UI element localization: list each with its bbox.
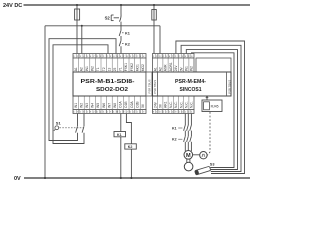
- svg-text:RJ45: RJ45: [211, 105, 219, 109]
- svg-text:N.C.: N.C.: [185, 101, 189, 108]
- svg-text:PSR-M-EM4-: PSR-M-EM4-: [175, 79, 206, 85]
- svg-text:IN1: IN1: [185, 66, 189, 71]
- svg-text:M: M: [186, 153, 191, 159]
- svg-text:O1B: O1B: [124, 101, 128, 108]
- wire: S1 linkage (dashed): [59, 127, 83, 129]
- svg-text:ASR: ASR: [164, 64, 168, 71]
- contactor contacts K1 (3-phase): [184, 125, 193, 131]
- module U1 terminal cell dividers bottom: [79, 96, 141, 114]
- RJ45 jack X1: [202, 100, 222, 112]
- wire: 0V bus left leg down to 0V rail: [44, 26, 46, 178]
- wire: T1 loop (line3) to S1 channel 1: [49, 39, 116, 141]
- wire: motor phase L3: [190, 114, 192, 152]
- contact S1 channel 2: [82, 126, 84, 132]
- svg-text:A1: A1: [74, 67, 78, 71]
- svg-text:S2: S2: [105, 16, 111, 21]
- contact S1 channel 1: [76, 126, 78, 132]
- svg-text:MO2: MO2: [141, 64, 145, 71]
- encoder loop wire 2: [181, 45, 241, 171]
- wire: K1 to K2 contact: [120, 36, 122, 41]
- wire: fuse F2 drop from 24V rail: [153, 5, 155, 10]
- module U1: PSR-M-B1-SDI8-SDO2-DO2: [73, 54, 146, 114]
- svg-text:A2: A2: [79, 67, 83, 71]
- emergency stop S1: [55, 126, 59, 130]
- connector stub: module U2 to RJ45: [206, 96, 208, 100]
- svg-text:O1A: O1A: [119, 101, 123, 108]
- fuse F2: [152, 10, 157, 21]
- contact K2 (aux, in reset chain): [119, 41, 121, 47]
- svg-text:K2: K2: [172, 138, 177, 142]
- wire: K2 contact to module1 reset terminal: [120, 46, 122, 53]
- svg-text:K1: K1: [117, 133, 122, 137]
- module U2: PSR-M-EM4-SINCOS1: [153, 54, 195, 114]
- svg-text:IN2: IN2: [79, 103, 83, 108]
- svg-text:N.C.: N.C.: [174, 101, 178, 108]
- svg-text:IN4: IN4: [91, 103, 95, 108]
- wire: S2 drop from 24V rail: [120, 5, 122, 14]
- svg-text:A1: A1: [153, 67, 157, 71]
- module U2 top terminal labels: [153, 62, 193, 71]
- svg-text:IN1: IN1: [85, 66, 89, 71]
- svg-text:24V DC: 24V DC: [3, 3, 22, 9]
- module U1 terminal cell dividers top: [79, 54, 141, 73]
- module U2 bottom terminal labels: [153, 101, 193, 108]
- wire: F2 to module2 A1 terminal: [153, 20, 155, 54]
- wire: motor phase L2: [187, 114, 189, 151]
- svg-text:IN3: IN3: [85, 103, 89, 108]
- svg-text:IN7: IN7: [107, 103, 111, 108]
- 24V rail: [24, 4, 251, 6]
- svg-text:MO1: MO1: [135, 64, 139, 71]
- encoder loop wire 4 (innermost): [192, 53, 235, 168]
- svg-text:IN1: IN1: [74, 103, 78, 108]
- svg-text:PSR TBUS: PSR TBUS: [153, 80, 157, 94]
- svg-text:S1: S1: [56, 120, 62, 125]
- module U1 top terminal labels: [74, 63, 145, 71]
- svg-text:24V: 24V: [174, 65, 178, 72]
- svg-text:FSK2: FSK2: [130, 63, 134, 71]
- module U2 TBUS strip left: [157, 72, 159, 96]
- proximity sensor S3: [195, 166, 211, 175]
- node: junction 24V/F1: [76, 4, 78, 6]
- wire: F1 to module1 A1 terminal: [76, 20, 78, 54]
- wheel / axis: [184, 162, 193, 171]
- svg-text:Y1: Y1: [119, 67, 123, 71]
- node: junction K2/0V: [130, 177, 132, 179]
- node: junction 24V/F2: [153, 4, 155, 6]
- svg-text:S3: S3: [210, 163, 215, 167]
- node: junction K1/0V: [120, 177, 122, 179]
- svg-text:SINCOS1: SINCOS1: [180, 87, 202, 93]
- module U2 bottom terminal numbers: [156, 110, 191, 114]
- svg-text:T2: T2: [102, 67, 106, 71]
- svg-text:24V: 24V: [153, 101, 157, 108]
- module U1 top terminal numbers: [76, 54, 142, 59]
- relay coil K2: [125, 144, 137, 149]
- encoder loop wire 3: [186, 50, 237, 170]
- module U2 upper-right section: [196, 58, 231, 72]
- svg-text:N.C.: N.C.: [179, 101, 183, 108]
- svg-text:AR1: AR1: [164, 101, 168, 108]
- module U1 body: [73, 72, 146, 96]
- svg-text:IN2: IN2: [91, 66, 95, 71]
- contactor contacts K2 (3-phase): [184, 136, 193, 142]
- module U2 top terminal numbers: [156, 54, 191, 59]
- wire: 0V bus drop to module1 A2: [81, 26, 83, 54]
- svg-text:IN6: IN6: [102, 103, 106, 108]
- wire: K1 coil to 0V rail: [120, 137, 122, 178]
- encoder G1 (sin/cos): [200, 152, 207, 159]
- module U2 body: [153, 72, 232, 96]
- svg-text:SDO2-DO2: SDO2-DO2: [96, 87, 128, 93]
- svg-text:FSK1: FSK1: [124, 63, 128, 71]
- svg-text:K2: K2: [128, 145, 133, 149]
- 0V rail: [24, 177, 250, 179]
- wire: T2 loop (line4) to S1 channel 2: [53, 45, 108, 144]
- svg-text:N.C.: N.C.: [190, 101, 194, 108]
- wire: 0V bus right drop to module2 A2: [159, 26, 161, 54]
- wire: module1 IN1 down to S1 contact 1: [77, 114, 79, 127]
- svg-text:IN8: IN8: [113, 103, 117, 108]
- relay coil K1: [114, 132, 126, 137]
- svg-text:O2A: O2A: [130, 101, 134, 108]
- svg-text:O2B: O2B: [135, 101, 139, 108]
- svg-text:K1: K1: [125, 31, 130, 35]
- wire: fuse F1 drop from 24V rail: [76, 5, 78, 9]
- svg-text:PSR-M-B1-SDI8-: PSR-M-B1-SDI8-: [81, 79, 135, 85]
- svg-text:K1: K1: [172, 126, 177, 130]
- wire: module1 O1A to K1 coil: [120, 114, 122, 132]
- wire: module1 O1B to K2 coil: [126, 114, 131, 144]
- encoder loop wire 1 (outermost): [176, 41, 245, 174]
- svg-text:K2: K2: [125, 43, 130, 47]
- wire: motor phase L1: [184, 114, 186, 152]
- svg-text:N.C.: N.C.: [169, 101, 173, 108]
- node: junction 24V/S2: [120, 4, 122, 6]
- fuse F1: [75, 9, 80, 20]
- svg-text:AOR1: AOR1: [169, 62, 173, 71]
- module U2 terminal cell dividers: [158, 54, 189, 114]
- wire: K2 coil to 0V rail: [130, 149, 132, 178]
- svg-text:PSR TBUS: PSR TBUS: [228, 80, 232, 94]
- contact K1 (aux, in reset chain): [119, 30, 121, 36]
- module U1 bottom terminal numbers: [76, 110, 142, 114]
- shaft: motor to wheel: [186, 159, 188, 163]
- wire: motor to encoder link: [193, 154, 200, 156]
- node: junction 0V bus / 0V rail: [44, 177, 46, 179]
- wire: module1 IN2 down to S1 contact 2: [83, 114, 85, 127]
- svg-text:A2: A2: [159, 67, 163, 71]
- wire: 0V bus (line2) horizontal: [45, 25, 160, 27]
- svg-text:PSR TBUS: PSR TBUS: [147, 79, 151, 93]
- svg-text:13: 13: [107, 67, 111, 71]
- motor M1: [184, 151, 193, 160]
- svg-text:IN5: IN5: [96, 103, 100, 108]
- wire: S2 to K1 contact: [120, 22, 122, 31]
- node: junction on 0V bus at A2: [81, 25, 83, 27]
- svg-text:0V: 0V: [14, 176, 21, 182]
- module U2 TBUS strip: [226, 72, 228, 96]
- cable: RJ45 to encoder (dashed): [208, 112, 211, 155]
- switch S2 (reset button): [111, 14, 121, 22]
- svg-text:IN2: IN2: [190, 66, 194, 71]
- svg-text:T1: T1: [96, 67, 100, 71]
- module U1 bottom terminal labels: [74, 101, 145, 108]
- svg-text:23: 23: [113, 67, 117, 71]
- module U1 TBUS strip: [146, 72, 152, 96]
